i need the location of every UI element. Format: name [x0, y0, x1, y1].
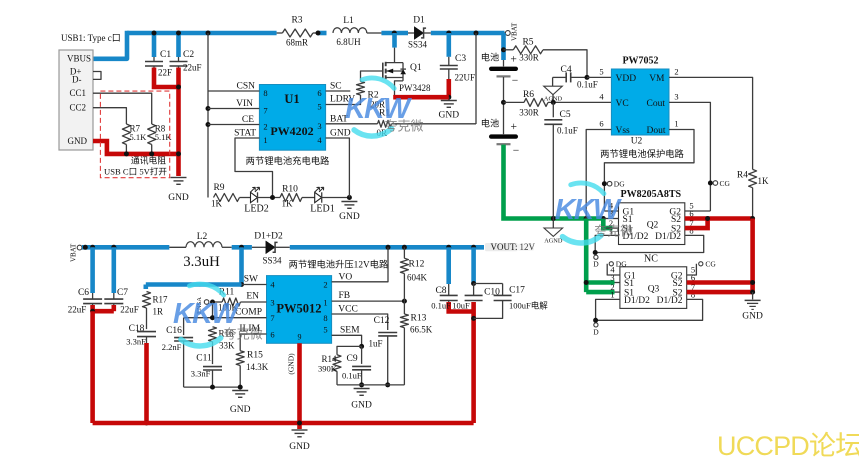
svg-text:KKW: KKW	[173, 298, 240, 330]
svg-text:R9: R9	[213, 183, 224, 193]
svg-text:夸克微: 夸克微	[224, 327, 263, 342]
svg-text:R6: R6	[523, 90, 534, 100]
svg-text:604K: 604K	[407, 273, 428, 283]
svg-text:+: +	[510, 54, 517, 66]
svg-text:R5: R5	[522, 38, 533, 48]
svg-text:GND: GND	[289, 442, 310, 452]
svg-text:D-: D-	[72, 75, 82, 85]
svg-text:Cout: Cout	[647, 99, 666, 109]
svg-text:VBAT: VBAT	[70, 243, 78, 262]
svg-text:C17: C17	[509, 286, 525, 296]
svg-text:C3: C3	[455, 54, 466, 64]
svg-text:+: +	[511, 121, 518, 133]
svg-text:6: 6	[317, 88, 321, 98]
svg-text:3: 3	[270, 298, 274, 308]
svg-text:VCC: VCC	[338, 304, 358, 314]
svg-text:VOUT:: VOUT:	[491, 242, 518, 252]
svg-text:5: 5	[323, 325, 327, 335]
svg-text:夸克微: 夸克微	[594, 224, 633, 239]
svg-text:STAT: STAT	[234, 129, 256, 139]
svg-text:COMP: COMP	[235, 308, 262, 318]
svg-text:2.2nF: 2.2nF	[162, 342, 182, 352]
svg-text:C6: C6	[78, 288, 89, 298]
svg-text:电池: 电池	[481, 52, 499, 63]
svg-text:14.3K: 14.3K	[246, 362, 269, 372]
svg-text:1: 1	[674, 119, 678, 129]
svg-text:Q2: Q2	[647, 221, 659, 231]
svg-text:390K: 390K	[318, 364, 338, 374]
svg-text:PW8205A8TS: PW8205A8TS	[621, 189, 682, 200]
svg-text:CC1: CC1	[69, 88, 86, 98]
svg-text:PW5012: PW5012	[276, 302, 321, 316]
svg-text:C1: C1	[160, 50, 171, 60]
svg-text:KKW: KKW	[555, 194, 622, 226]
svg-text:L1: L1	[343, 16, 354, 26]
svg-text:L2: L2	[197, 232, 208, 242]
svg-text:D1/D2: D1/D2	[655, 232, 681, 242]
svg-text:PW7052: PW7052	[622, 56, 658, 67]
svg-text:R13: R13	[411, 314, 427, 324]
svg-text:S1: S1	[624, 279, 634, 289]
svg-text:两节锂电池保护电路: 两节锂电池保护电路	[600, 148, 684, 160]
svg-text:VC: VC	[616, 99, 629, 109]
svg-text:22uF: 22uF	[68, 305, 87, 315]
svg-text:10uF: 10uF	[452, 301, 470, 311]
svg-text:6.8UH: 6.8UH	[336, 37, 361, 47]
svg-text:Dout: Dout	[647, 126, 666, 136]
svg-text:8: 8	[263, 88, 267, 98]
svg-text:2: 2	[263, 122, 267, 132]
svg-text:6: 6	[270, 330, 274, 340]
svg-text:Vss: Vss	[616, 126, 631, 136]
svg-text:330R: 330R	[519, 53, 539, 63]
svg-text:通讯电阻: 通讯电阻	[131, 154, 166, 165]
svg-text:1K: 1K	[758, 176, 770, 186]
svg-text:U2: U2	[631, 137, 643, 147]
svg-text:C8: C8	[435, 286, 446, 296]
svg-text:8: 8	[323, 313, 327, 323]
svg-text:D: D	[593, 328, 599, 337]
svg-text:C5: C5	[560, 110, 571, 120]
svg-text:两节锂电池升压12V电路: 两节锂电池升压12V电路	[289, 258, 389, 270]
svg-text:3.3nF: 3.3nF	[126, 337, 146, 347]
svg-text:2: 2	[323, 280, 327, 290]
svg-text:PW3428: PW3428	[399, 83, 431, 93]
svg-text:33K: 33K	[219, 341, 235, 351]
svg-text:22UF: 22UF	[455, 73, 476, 83]
svg-text:Q3: Q3	[648, 285, 660, 295]
svg-text:C12: C12	[374, 316, 390, 326]
svg-text:DG: DG	[616, 260, 627, 269]
svg-text:USB1: Type c口: USB1: Type c口	[61, 33, 121, 43]
svg-text:LED1: LED1	[310, 204, 334, 215]
svg-text:3: 3	[674, 92, 678, 102]
svg-text:R3: R3	[291, 16, 302, 26]
svg-text:3: 3	[317, 121, 321, 131]
svg-text:C18: C18	[129, 324, 145, 334]
svg-text:R4: R4	[737, 171, 748, 181]
svg-text:CG: CG	[705, 260, 716, 269]
svg-text:R10: R10	[282, 185, 298, 195]
svg-text:D1/D2: D1/D2	[624, 296, 650, 306]
svg-text:6: 6	[599, 119, 603, 129]
svg-text:2: 2	[674, 67, 678, 77]
svg-text:GND: GND	[330, 129, 351, 139]
svg-text:5: 5	[599, 67, 603, 77]
svg-text:CC2: CC2	[69, 103, 86, 113]
svg-text:U1: U1	[284, 92, 299, 106]
svg-text:VM: VM	[649, 74, 665, 84]
svg-text:9: 9	[298, 333, 302, 342]
svg-text:1K: 1K	[211, 199, 223, 209]
svg-text:SC: SC	[330, 82, 342, 92]
svg-text:GND: GND	[68, 136, 88, 146]
svg-text:VIN: VIN	[236, 99, 253, 109]
svg-text:VBUS: VBUS	[67, 54, 91, 64]
svg-text:1uF: 1uF	[368, 339, 382, 349]
svg-text:VDD: VDD	[616, 74, 637, 84]
svg-text:FB: FB	[339, 291, 351, 301]
svg-text:夸克微: 夸克微	[385, 119, 424, 134]
svg-text:5: 5	[317, 102, 321, 112]
svg-text:USB C口 5V打开: USB C口 5V打开	[104, 165, 167, 176]
svg-text:D1/D2: D1/D2	[657, 296, 683, 306]
svg-text:GND: GND	[351, 401, 372, 411]
svg-text:CG: CG	[720, 179, 731, 188]
svg-text:SS34: SS34	[408, 40, 428, 50]
svg-text:GND: GND	[168, 193, 189, 203]
svg-text:Q1: Q1	[410, 63, 422, 73]
svg-text:UCCPD论坛: UCCPD论坛	[717, 431, 859, 461]
svg-text:VO: VO	[339, 273, 353, 283]
svg-text:SS34: SS34	[262, 256, 282, 266]
svg-text:0.1uF: 0.1uF	[431, 301, 451, 311]
svg-text:D1: D1	[413, 16, 425, 26]
svg-text:C9: C9	[347, 354, 358, 364]
svg-text:CSN: CSN	[237, 82, 256, 92]
svg-text:GND: GND	[742, 312, 763, 322]
svg-text:CE: CE	[242, 115, 254, 125]
svg-text:C2: C2	[183, 50, 194, 60]
svg-text:330R: 330R	[519, 108, 539, 118]
svg-text:0.1uF: 0.1uF	[557, 126, 578, 136]
svg-text:22F: 22F	[158, 68, 172, 78]
svg-text:22uF: 22uF	[120, 305, 139, 315]
svg-text:R17: R17	[153, 295, 169, 305]
svg-text:R12: R12	[409, 260, 425, 270]
svg-text:GND: GND	[230, 405, 251, 415]
svg-text:VBAT: VBAT	[511, 22, 519, 41]
svg-text:1R: 1R	[153, 307, 164, 317]
svg-text:7: 7	[263, 106, 267, 116]
svg-text:C11: C11	[196, 354, 212, 364]
svg-text:电池: 电池	[481, 118, 499, 129]
svg-text:5.1K: 5.1K	[130, 132, 148, 142]
svg-text:−: −	[512, 75, 519, 87]
svg-text:1K: 1K	[282, 199, 294, 209]
svg-text:1: 1	[263, 135, 267, 145]
svg-text:1: 1	[323, 298, 327, 308]
svg-text:SW: SW	[244, 275, 258, 285]
svg-text:68mR: 68mR	[286, 38, 308, 48]
svg-text:AGND: AGND	[544, 238, 563, 245]
svg-text:3.3uH: 3.3uH	[183, 254, 220, 270]
svg-text:1: 1	[610, 289, 614, 299]
svg-text:12V: 12V	[520, 242, 536, 252]
svg-text:−: −	[513, 145, 520, 157]
svg-text:GND: GND	[339, 212, 360, 222]
svg-text:66.5K: 66.5K	[410, 325, 433, 335]
svg-text:0.1uF: 0.1uF	[577, 80, 598, 90]
svg-text:SEM: SEM	[340, 325, 360, 335]
svg-text:LED2: LED2	[244, 204, 268, 215]
svg-text:S2: S2	[672, 279, 682, 289]
svg-text:R14: R14	[322, 354, 338, 364]
svg-text:3: 3	[610, 273, 614, 283]
svg-text:100uF电解: 100uF电解	[509, 301, 548, 311]
svg-text:7: 7	[270, 313, 274, 323]
svg-text:DG: DG	[614, 180, 625, 189]
svg-text:3.3nF: 3.3nF	[191, 369, 211, 379]
svg-text:NC: NC	[644, 254, 658, 265]
svg-text:GND: GND	[439, 111, 460, 121]
svg-text:(GND): (GND)	[287, 353, 296, 375]
svg-text:R15: R15	[247, 351, 263, 361]
svg-text:EN: EN	[246, 292, 259, 302]
svg-text:S2: S2	[671, 215, 681, 225]
svg-text:0.1uF: 0.1uF	[342, 371, 362, 381]
svg-text:C7: C7	[117, 288, 128, 298]
svg-text:D: D	[593, 260, 599, 269]
svg-text:22uF: 22uF	[183, 63, 202, 73]
svg-text:PW4202: PW4202	[270, 124, 313, 138]
svg-text:D1+D2: D1+D2	[254, 232, 283, 242]
svg-text:C4: C4	[561, 65, 572, 75]
svg-text:两节锂电池充电电路: 两节锂电池充电电路	[246, 155, 330, 167]
